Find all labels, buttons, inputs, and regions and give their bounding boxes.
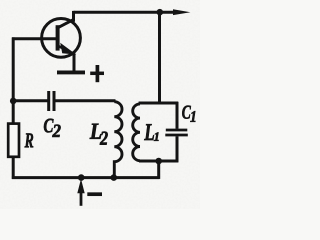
wire base lead bbox=[12, 37, 57, 40]
wire tank bottom bar bbox=[139, 160, 178, 163]
arrow supply bottom bbox=[80, 191, 83, 206]
transistor circle bbox=[42, 19, 81, 58]
transistor collector lead bbox=[56, 19, 74, 28]
minus sign label bbox=[87, 192, 102, 196]
node top output junction bbox=[157, 9, 164, 16]
label R bbox=[25, 133, 34, 147]
wire C2 right lead to L2 top bbox=[55, 99, 116, 102]
capacitor C1 bbox=[165, 130, 188, 135]
label C2 sub bbox=[52, 125, 60, 137]
wire top rail: collector to output branch bbox=[74, 11, 177, 14]
node left rail / C2 junction bbox=[10, 98, 17, 105]
label L1 sub bbox=[154, 133, 159, 141]
inductor L1 bbox=[133, 104, 140, 161]
wire bottom rail bbox=[12, 176, 160, 179]
transistor VT1 bbox=[42, 19, 81, 58]
wire left rail upper bbox=[12, 37, 15, 124]
wire collector vertical bbox=[72, 11, 75, 22]
label C2 cap bbox=[44, 119, 54, 133]
wire left rail lower bbox=[12, 156, 15, 179]
capacitor C2 bbox=[49, 91, 54, 111]
transistor emitter arrowhead bbox=[60, 43, 76, 55]
wire C2 left lead bbox=[13, 99, 48, 102]
inductor L2 bbox=[114, 102, 122, 179]
wire emitter to ground bbox=[73, 53, 76, 70]
wire C1 bottom lead bbox=[176, 136, 179, 162]
wire tank to bottom rail bbox=[157, 161, 160, 179]
arrow output right bbox=[173, 9, 190, 15]
node tank bottom junction bbox=[155, 158, 162, 165]
label L2 cap bbox=[90, 124, 102, 139]
resistor R bbox=[8, 124, 19, 157]
label C1 cap bbox=[182, 106, 191, 119]
label C1 sub bbox=[190, 111, 195, 122]
wire output branch vertical bbox=[158, 12, 161, 103]
ground bbox=[57, 70, 85, 74]
label L1 cap bbox=[144, 124, 154, 140]
plus sign label bbox=[90, 65, 104, 82]
transistor base bar bbox=[56, 25, 60, 50]
node bottom arrow junction bbox=[78, 174, 85, 181]
wire C1 top lead bbox=[176, 102, 179, 129]
label L2 sub bbox=[100, 132, 108, 145]
background paper bbox=[0, 0, 200, 209]
node L2 bottom junction bbox=[111, 174, 118, 181]
transistor emitter lead bbox=[57, 46, 67, 50]
wire tank top bar bbox=[139, 102, 178, 105]
